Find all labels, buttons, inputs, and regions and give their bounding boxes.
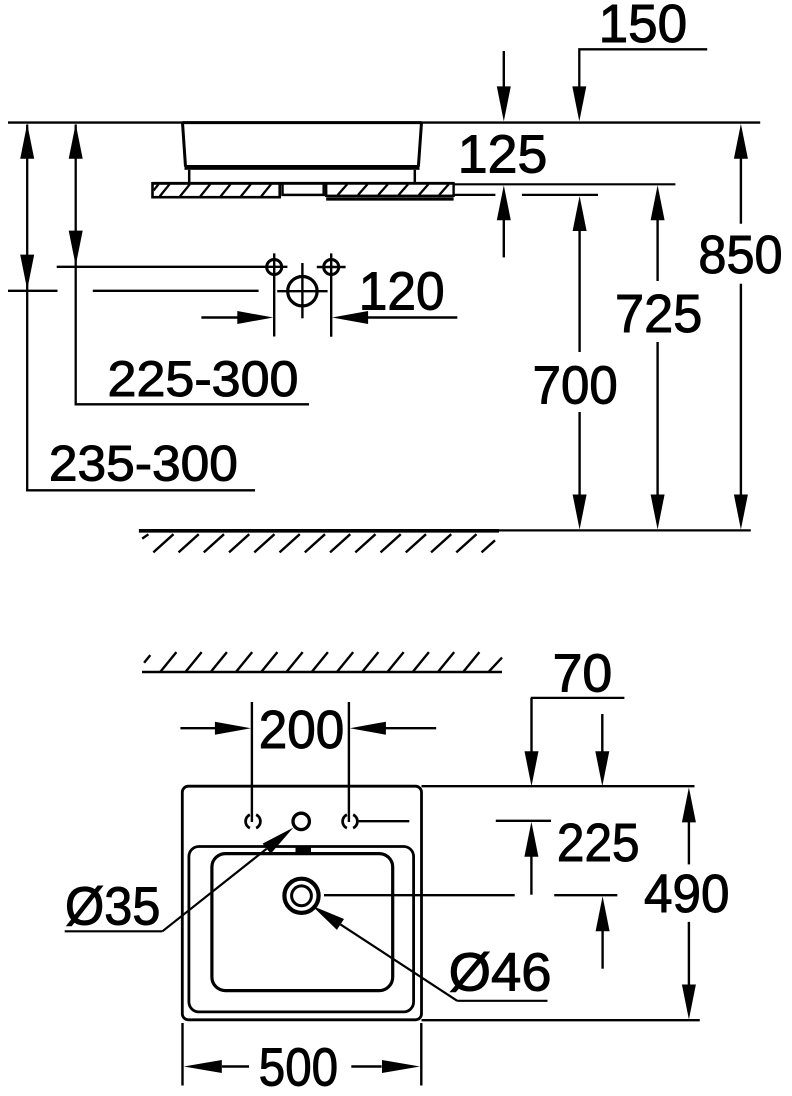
svg-text:Ø35: Ø35 [65, 877, 160, 937]
svg-text:150: 150 [599, 0, 688, 54]
svg-text:70: 70 [553, 643, 613, 703]
svg-text:235-300: 235-300 [49, 436, 238, 492]
svg-text:120: 120 [359, 261, 445, 321]
svg-text:200: 200 [259, 700, 345, 760]
svg-text:490: 490 [644, 864, 730, 924]
svg-text:Ø46: Ø46 [449, 943, 552, 1003]
svg-text:500: 500 [259, 1037, 338, 1096]
svg-text:225: 225 [557, 813, 640, 873]
svg-text:125: 125 [458, 124, 548, 184]
svg-text:725: 725 [615, 284, 702, 344]
svg-text:225-300: 225-300 [108, 351, 299, 407]
svg-text:700: 700 [533, 355, 618, 415]
svg-text:850: 850 [698, 225, 782, 285]
